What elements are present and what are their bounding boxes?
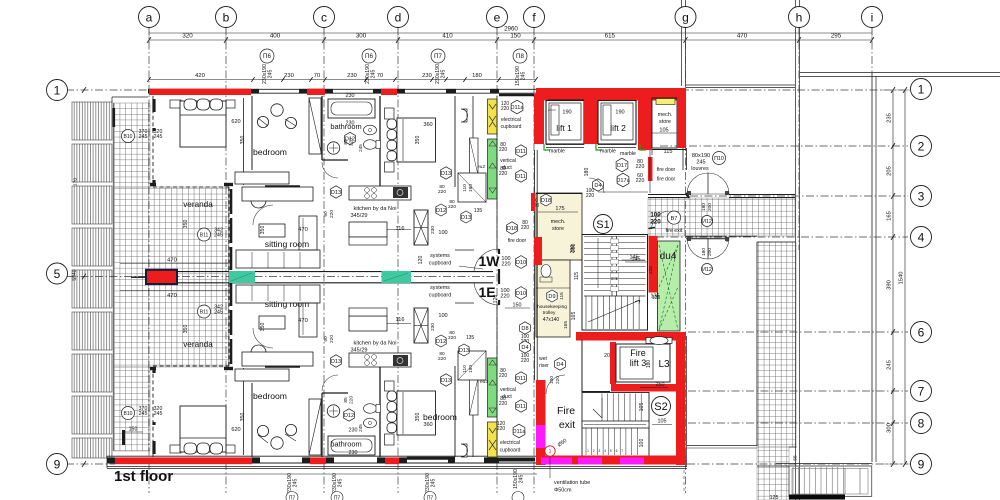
svg-text:360: 360 (423, 422, 432, 428)
svg-text:louvres: louvres (691, 166, 709, 172)
svg-text:20: 20 (604, 353, 610, 359)
fire exit entry door arc (546, 375, 565, 394)
svg-text:fire door: fire door (657, 177, 676, 183)
upper shaft X box (414, 210, 428, 245)
svg-text:165: 165 (887, 211, 893, 221)
svg-text:220: 220 (650, 219, 661, 226)
wall below corridor (lift lobby floor line) (536, 193, 582, 195)
svg-text:615: 615 (605, 33, 616, 40)
stair black bar (789, 495, 845, 500)
svg-text:150: 150 (513, 303, 522, 309)
svg-text:2960: 2960 (504, 26, 518, 33)
svg-text:190: 190 (468, 184, 474, 192)
svg-text:230: 230 (284, 73, 294, 79)
wall above outdoor stair (687, 445, 757, 447)
red bar right of stairwell (649, 236, 658, 293)
svg-text:245: 245 (214, 233, 223, 239)
svg-text:220: 220 (499, 147, 508, 153)
svg-text:470: 470 (167, 258, 177, 264)
svg-text:230: 230 (346, 93, 355, 99)
svg-text:100: 100 (438, 230, 447, 236)
svg-text:electrical: electrical (500, 440, 520, 446)
window dimension chain (149, 79, 536, 81)
svg-text:135: 135 (474, 208, 483, 214)
upper unit bedroom1 dashed envelope (152, 96, 154, 187)
svg-text:180: 180 (701, 203, 707, 211)
svg-text:И12: И12 (702, 219, 712, 225)
svg-text:205: 205 (887, 166, 893, 176)
veranda tiles lower (114, 367, 150, 451)
svg-text:230: 230 (430, 323, 436, 331)
lower bedroom2 walls (472, 378, 474, 457)
svg-text:bedroom: bedroom (423, 412, 457, 422)
svg-text:245: 245 (154, 411, 163, 417)
svg-text:П7: П7 (289, 496, 296, 500)
shaft labels upper (511, 100, 523, 114)
right dims (892, 90, 894, 464)
svg-text:245: 245 (358, 424, 363, 432)
svg-text:D9: D9 (548, 294, 555, 300)
svg-text:bathroom: bathroom (330, 440, 361, 449)
svg-text:350: 350 (240, 136, 246, 145)
upper wardrobe right (235, 172, 289, 184)
upper bedroom1 bed (170, 100, 181, 108)
fire exit red right wall (676, 340, 686, 465)
svg-text:П7: П7 (434, 53, 442, 60)
lower hall door arcs (253, 328, 273, 348)
veranda tiles middle (114, 187, 229, 367)
upper kitchen (349, 186, 411, 200)
svg-text:du4: du4 (660, 251, 677, 262)
svg-text:320: 320 (182, 33, 193, 40)
svg-text:systems: systems (430, 253, 450, 259)
svg-text:D13: D13 (461, 215, 471, 221)
svg-text:exit: exit (559, 419, 575, 431)
svg-text:245: 245 (139, 411, 148, 417)
lower unit bedroom1 dashed envelope (152, 366, 154, 457)
bottom dim line (115, 473, 537, 475)
du4 shaft light green (658, 241, 681, 331)
dashed below fire exit (683, 470, 685, 492)
svg-text:4: 4 (918, 230, 925, 244)
svg-text:220: 220 (499, 171, 508, 177)
svg-text:220: 220 (501, 262, 510, 268)
svg-text:165: 165 (571, 312, 577, 321)
fire exit red left wall (536, 380, 546, 465)
svg-text:245: 245 (358, 144, 363, 152)
svg-text:190: 190 (615, 110, 624, 116)
svg-text:105: 105 (639, 403, 645, 412)
svg-text:D4: D4 (594, 183, 601, 189)
svg-text:80x190: 80x190 (692, 153, 710, 159)
svg-text:345/29: 345/29 (350, 348, 367, 354)
lift sills (546, 144, 584, 146)
svg-text:105: 105 (658, 419, 667, 425)
svg-text:190: 190 (562, 110, 571, 116)
svg-text:150: 150 (510, 33, 521, 40)
svg-text:220: 220 (501, 106, 510, 112)
svg-text:400: 400 (270, 33, 281, 40)
svg-text:55: 55 (793, 455, 799, 461)
store door D4 (593, 179, 604, 191)
svg-text:D17a: D17a (616, 178, 630, 184)
double door lower (687, 237, 729, 241)
terrace bottom edge (776, 463, 872, 465)
electrical shaft yellow upper (488, 99, 498, 134)
svg-text:245: 245 (293, 479, 299, 488)
svg-text:6: 6 (918, 325, 925, 339)
red wall bottom c1 (310, 457, 326, 464)
svg-text:120: 120 (493, 295, 499, 304)
svg-text:1540: 1540 (899, 272, 905, 285)
svg-text:B10: B10 (124, 411, 133, 417)
svg-text:D12: D12 (344, 413, 354, 419)
svg-text:220: 220 (636, 164, 645, 170)
svg-text:fire door: fire door (657, 167, 676, 173)
svg-text:116: 116 (396, 226, 405, 232)
svg-text:245: 245 (371, 70, 377, 79)
lower bedroom1 bed (170, 445, 181, 453)
svg-text:3: 3 (599, 449, 601, 453)
svg-text:180: 180 (701, 248, 707, 256)
svg-text:S1: S1 (596, 219, 609, 231)
svg-text:mech.: mech. (551, 219, 566, 225)
corridor door arcs (474, 249, 499, 271)
svg-text:D4: D4 (521, 345, 528, 351)
lift1 car (551, 105, 559, 135)
svg-text:245: 245 (139, 134, 148, 140)
bottom wall windows (107, 455, 537, 457)
svg-text:cupboard: cupboard (501, 124, 522, 130)
svg-text:245: 245 (521, 72, 527, 81)
left dims (82, 87, 86, 93)
roof edge h column (795, 0, 797, 500)
svg-text:7: 7 (621, 449, 623, 453)
svg-text:165: 165 (563, 321, 569, 329)
svg-text:190: 190 (468, 365, 474, 373)
svg-text:350: 350 (260, 323, 266, 332)
svg-text:220: 220 (499, 401, 508, 407)
svg-text:h: h (796, 10, 803, 24)
svg-text:ventilation tube: ventilation tube (554, 480, 590, 486)
svg-text:D8: D8 (521, 326, 528, 332)
upper bathroom (321, 96, 323, 160)
svg-text:350: 350 (415, 136, 421, 145)
svg-text:90: 90 (323, 211, 329, 217)
svg-text:sitting room: sitting room (265, 299, 309, 309)
svg-text:175: 175 (555, 206, 564, 212)
svg-text:7: 7 (918, 384, 925, 398)
svg-text:П7: П7 (427, 496, 434, 500)
fire exit door arc (652, 211, 670, 229)
housekeeping fixtures (547, 290, 557, 302)
magenta bottom segments (541, 458, 572, 465)
svg-text:230: 230 (347, 73, 357, 79)
grid letter circles (139, 7, 160, 28)
svg-text:220: 220 (521, 225, 530, 231)
svg-text:230: 230 (422, 73, 432, 79)
lower bedroom2 bed (385, 434, 395, 445)
teal block mid (382, 271, 412, 283)
red wall bottom a-b (115, 457, 252, 464)
svg-text:110: 110 (462, 184, 468, 192)
vertical duct green lower (488, 358, 498, 417)
svg-text:220: 220 (497, 426, 506, 432)
svg-text:115: 115 (664, 149, 673, 155)
svg-text:120: 120 (418, 256, 424, 265)
svg-text:180: 180 (584, 168, 590, 177)
svg-text:sitting room: sitting room (265, 239, 309, 249)
S2 black patch (677, 409, 686, 417)
svg-text:220: 220 (438, 189, 446, 195)
svg-text:105: 105 (659, 128, 668, 134)
svg-text:230: 230 (349, 450, 358, 456)
S1 upper flights treads (584, 236, 614, 238)
svg-text:marble: marble (549, 149, 565, 155)
svg-text:cupboard: cupboard (500, 448, 521, 454)
lift block left red wall (534, 94, 544, 144)
svg-text:veranda: veranda (183, 200, 213, 209)
svg-text:D13: D13 (441, 378, 451, 384)
svg-text:L3: L3 (658, 359, 670, 370)
fire lift red left wall (610, 342, 616, 384)
svg-text:150: 150 (129, 427, 138, 433)
svg-text:systems: systems (430, 285, 450, 291)
svg-text:47x140: 47x140 (543, 317, 560, 323)
red wall top a-b (149, 89, 251, 95)
svg-text:bathroom: bathroom (330, 122, 361, 131)
svg-text:420: 420 (195, 73, 205, 79)
svg-text:D12: D12 (436, 208, 446, 214)
svg-text:350: 350 (183, 220, 189, 229)
red wall top c1 (307, 89, 325, 95)
svg-text:1st floor: 1st floor (114, 468, 173, 485)
svg-text:Φ50cm: Φ50cm (554, 488, 572, 494)
shaft labels lower (516, 372, 527, 384)
fire exit red bottom wall (536, 456, 686, 465)
svg-text:Fire: Fire (557, 405, 575, 417)
red pillar right of lift2 (638, 94, 652, 150)
svg-text:1: 1 (54, 83, 61, 97)
S1 stairwell frame (582, 235, 648, 331)
svg-text:180: 180 (472, 73, 482, 79)
outdoor stair (789, 466, 872, 496)
veranda west wall (112, 103, 114, 451)
vertical duct green upper (488, 139, 498, 199)
svg-text:D12: D12 (436, 339, 446, 345)
west wall stubs (113, 108, 116, 127)
fire lift room walls (581, 340, 583, 392)
svg-text:620: 620 (231, 427, 240, 433)
svg-text:В7: В7 (671, 216, 678, 222)
svg-text:6: 6 (616, 449, 618, 453)
svg-text:360: 360 (423, 122, 432, 128)
S2 lower flight (585, 428, 587, 455)
svg-text:D18: D18 (541, 198, 551, 204)
svg-text:store: store (552, 226, 564, 232)
building NW corner stub (112, 96, 148, 98)
S2 circle (652, 397, 671, 416)
red wall left of store (531, 193, 535, 211)
fire lift machine (646, 338, 672, 344)
svg-text:100: 100 (639, 439, 645, 448)
svg-text:116: 116 (396, 317, 405, 323)
veranda tiles upper (114, 103, 150, 187)
lower kitchen (349, 353, 411, 367)
svg-text:220: 220 (499, 373, 508, 379)
svg-text:220: 220 (555, 376, 561, 384)
red wall top c2 (381, 89, 397, 95)
svg-text:9: 9 (54, 457, 61, 471)
svg-text:marble: marble (600, 149, 616, 155)
svg-text:345/29: 345/29 (350, 213, 367, 219)
svg-text:И12: И12 (702, 267, 712, 273)
svg-text:D11: D11 (516, 174, 526, 180)
svg-text:D18: D18 (507, 226, 517, 232)
corridor-lift wall (534, 150, 536, 380)
lower sitting room (228, 281, 230, 366)
svg-text:cupboard: cupboard (429, 261, 451, 267)
svg-text:245: 245 (519, 475, 525, 484)
svg-text:220: 220 (349, 396, 355, 404)
svg-text:1: 1 (549, 449, 552, 455)
svg-text:220: 220 (349, 138, 355, 146)
svg-text:145: 145 (632, 257, 641, 263)
lift2 car (603, 105, 611, 135)
terrace edge below building (107, 466, 687, 468)
svg-text:e: e (494, 10, 501, 24)
470 dims veranda (120, 263, 228, 265)
upper bedroom2 bed (385, 108, 395, 119)
svg-text:620: 620 (231, 119, 240, 125)
svg-text:300: 300 (356, 33, 367, 40)
corridor top wall right wing (729, 194, 795, 196)
S1 riser numbers boxes (611, 239, 619, 244)
svg-text:D13: D13 (459, 348, 469, 354)
svg-text:350: 350 (260, 226, 266, 235)
svg-text:8: 8 (918, 416, 925, 430)
svg-text:110: 110 (462, 365, 468, 373)
upper door hexes kitchen-bath (436, 204, 446, 216)
svg-text:riser: riser (539, 363, 549, 369)
svg-text:electrical: electrical (501, 117, 521, 123)
svg-text:B11: B11 (200, 310, 209, 316)
svg-text:2: 2 (918, 139, 925, 153)
svg-text:230: 230 (430, 226, 436, 234)
grid number circles right (911, 79, 932, 100)
svg-text:85: 85 (343, 139, 349, 145)
svg-text:5940: 5940 (72, 269, 78, 280)
louvre window right (682, 148, 684, 170)
red wall bottom c2 (385, 457, 399, 464)
S2 landing (582, 421, 649, 428)
upper hall door arcs (253, 205, 273, 225)
svg-text:B11: B11 (200, 233, 209, 239)
svg-text:D11a: D11a (513, 429, 527, 435)
svg-text:Fire: Fire (630, 348, 646, 358)
svg-text:lift 2: lift 2 (610, 123, 626, 133)
svg-text:220: 220 (448, 335, 456, 341)
svg-text:220: 220 (521, 358, 530, 364)
svg-text:D13: D13 (331, 359, 341, 365)
svg-text:mech.: mech. (658, 112, 673, 118)
svg-text:200: 200 (707, 203, 713, 211)
svg-text:220: 220 (500, 294, 509, 300)
svg-text:b: b (223, 10, 230, 24)
svg-text:3: 3 (918, 189, 925, 203)
mech store S1 pale yellow (536, 193, 582, 260)
electrical shaft yellow lower (488, 422, 498, 457)
svg-text:220: 220 (636, 178, 645, 184)
fire lift red bottom (611, 384, 678, 392)
svg-text:fire exit: fire exit (666, 228, 683, 234)
svg-text:D11: D11 (516, 149, 526, 155)
lower shaft X box (414, 308, 428, 343)
window tag circles (260, 49, 274, 63)
red lift block top band (536, 88, 686, 101)
svg-text:295: 295 (831, 33, 842, 40)
terrace right edge (871, 73, 873, 462)
svg-text:245: 245 (268, 70, 274, 79)
grid number circles left (47, 80, 68, 101)
svg-text:vertical: vertical (500, 387, 516, 393)
lower door hexes kitchen-bath (436, 335, 446, 347)
svg-text:245: 245 (338, 479, 344, 488)
upper hall wall (455, 249, 474, 251)
svg-text:245: 245 (696, 160, 705, 166)
lower toilet2 (461, 444, 468, 457)
svg-text:250: 250 (656, 382, 665, 388)
tiled strip south terrace (757, 242, 796, 447)
svg-text:220: 220 (329, 335, 335, 343)
svg-text:90: 90 (323, 336, 329, 342)
svg-text:lift 1: lift 1 (556, 123, 572, 133)
svg-text:store: store (659, 119, 671, 125)
svg-text:200: 200 (707, 248, 713, 256)
lower bedroom1 chairs (271, 437, 283, 449)
svg-text:220: 220 (438, 356, 446, 362)
svg-text:220: 220 (448, 204, 456, 210)
svg-text:5: 5 (54, 267, 61, 281)
corridor mid hexes (507, 222, 518, 234)
upper sitting room (228, 187, 230, 272)
svg-text:290: 290 (571, 244, 577, 253)
hk wc (541, 265, 551, 278)
svg-text:4: 4 (604, 449, 606, 453)
svg-text:220: 220 (648, 266, 653, 274)
bottom wall black piers (107, 457, 115, 462)
svg-text:245: 245 (887, 360, 893, 370)
svg-text:245: 245 (441, 70, 447, 79)
S1 circle (594, 215, 613, 234)
svg-text:veranda: veranda (183, 340, 213, 349)
lower cupboard110 (458, 351, 486, 380)
svg-text:1: 1 (918, 82, 925, 96)
svg-text:180: 180 (646, 360, 652, 369)
svg-text:B10: B10 (124, 134, 133, 140)
lower bedroom1 right wall (243, 368, 245, 455)
svg-text:D13: D13 (331, 190, 341, 196)
terrace top edge right (800, 72, 1000, 74)
svg-text:D10: D10 (516, 291, 526, 297)
svg-text:D11: D11 (516, 376, 526, 382)
mech store top (652, 98, 677, 148)
upper bedroom1 right wall (243, 98, 245, 185)
svg-text:230: 230 (349, 428, 358, 434)
corridor bottom wall right wing (686, 235, 727, 237)
housekeeping room pale yellow (536, 260, 570, 337)
lift1 shaft (546, 101, 584, 145)
